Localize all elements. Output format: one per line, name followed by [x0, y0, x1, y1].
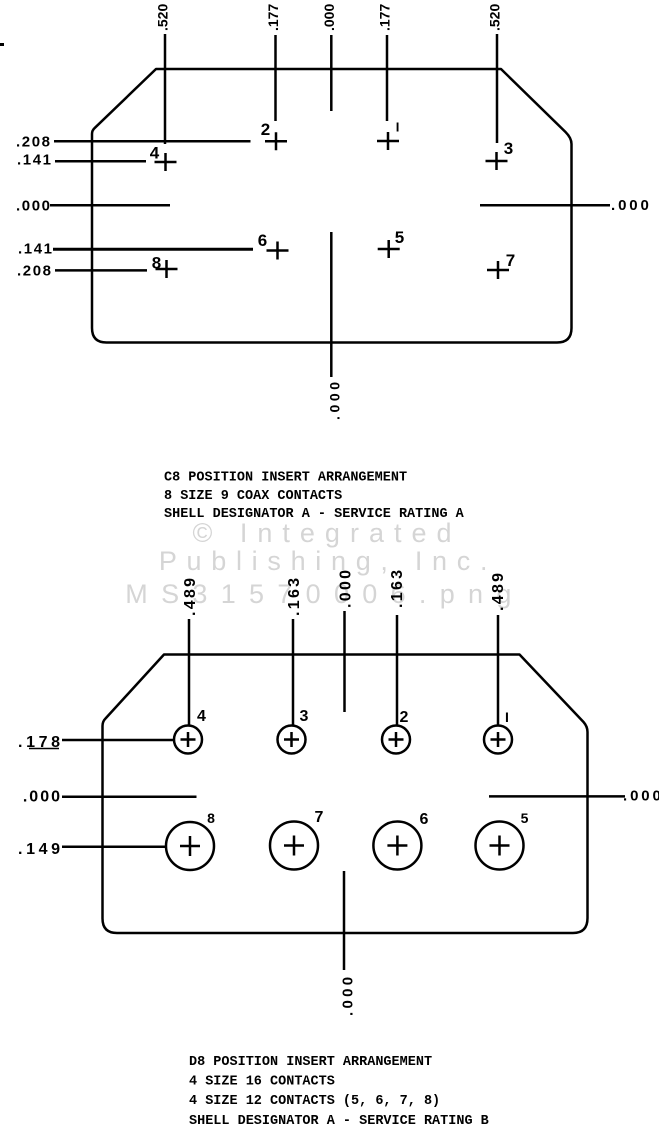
svg-text:Publishing, Inc.: Publishing, Inc.: [159, 546, 497, 576]
dimension centerline .000 (C8): [330, 35, 333, 377]
svg-text:.520: .520: [487, 4, 503, 31]
svg-text:D8 POSITION INSERT ARRANGEMENT: D8 POSITION INSERT ARRANGEMENT: [189, 1055, 432, 1070]
contact 7 cross (C8): [487, 261, 509, 279]
dimension line .489 left (D8): [188, 619, 191, 726]
svg-text:8: 8: [207, 810, 215, 826]
dimension line .520 right (C8): [496, 34, 499, 143]
dimension line .177 left (C8): [274, 35, 277, 121]
centerline bottom .000 (D8): [343, 871, 346, 970]
contact 8 circle (D8): [166, 822, 214, 870]
svg-text:7: 7: [315, 809, 324, 826]
svg-text:I: I: [396, 120, 400, 135]
svg-text:.000: .000: [16, 198, 52, 215]
contact 1 circle (D8): [484, 726, 512, 754]
svg-text:8 SIZE 9 COAX CONTACTS: 8 SIZE 9 COAX CONTACTS: [164, 489, 342, 504]
contact 8 cross (C8): [156, 260, 178, 278]
svg-text:.000: .000: [321, 4, 337, 31]
contact 3 circle (D8): [278, 726, 306, 754]
contact 1 cross (C8): [377, 132, 399, 150]
svg-text:6: 6: [258, 231, 267, 250]
leader .000 left (D8): [62, 795, 197, 798]
svg-text:.208: .208: [17, 263, 53, 280]
dimension centerline .000 (D8): [343, 611, 346, 712]
svg-text:3: 3: [504, 139, 513, 158]
dimension line .520 left (C8): [164, 34, 167, 144]
contact 3 cross (C8): [486, 152, 508, 170]
dimension line .177 right (C8): [386, 35, 389, 121]
svg-text:SHELL DESIGNATOR A - SERVICE R: SHELL DESIGNATOR A - SERVICE RATING B: [189, 1114, 489, 1128]
edge tick top-left: [0, 43, 4, 46]
svg-text:7: 7: [506, 251, 515, 270]
svg-text:.000: .000: [338, 568, 355, 608]
contact 6 cross (C8): [267, 242, 289, 260]
svg-text:5: 5: [521, 810, 529, 826]
leader .178 (D8): [62, 739, 174, 742]
svg-text:.208: .208: [16, 134, 52, 151]
contact 4 cross (C8): [155, 153, 177, 171]
leader .000 right (C8): [480, 204, 610, 207]
dimension line .489 right (D8): [497, 615, 500, 726]
shell outline C8: [92, 69, 572, 343]
underline of .178: [29, 748, 59, 750]
svg-text:3: 3: [300, 708, 309, 725]
svg-text:.163: .163: [389, 568, 406, 608]
svg-text:.489: .489: [490, 571, 507, 611]
svg-text:I: I: [505, 709, 509, 725]
dimension line .163 left (D8): [292, 619, 295, 726]
svg-text:.489: .489: [182, 576, 199, 616]
svg-text:2: 2: [400, 709, 409, 726]
svg-text:C8 POSITION INSERT ARRANGEMENT: C8 POSITION INSERT ARRANGEMENT: [164, 471, 407, 486]
svg-text:.177: .177: [377, 4, 393, 31]
leader .208 upper (C8): [54, 140, 251, 143]
svg-text:.000: .000: [326, 378, 342, 420]
leader .149 (D8): [62, 845, 166, 848]
svg-text:4: 4: [197, 708, 206, 725]
leader .141 upper (C8): [55, 160, 146, 163]
svg-text:4: 4: [150, 144, 160, 163]
dimension line .163 right (D8): [396, 615, 399, 726]
svg-text:5: 5: [395, 228, 404, 247]
svg-text:6: 6: [420, 811, 429, 828]
svg-text:© Integrated: © Integrated: [193, 518, 462, 548]
leader .000 right (D8): [489, 795, 625, 798]
contact 4 circle (D8): [174, 726, 202, 754]
contact 2 cross (C8): [265, 132, 287, 150]
contact 2 circle (D8): [382, 726, 410, 754]
leader .000 left (C8): [50, 204, 170, 207]
svg-text:.000: .000: [340, 974, 357, 1016]
svg-text:SHELL DESIGNATOR A - SERVICE R: SHELL DESIGNATOR A - SERVICE RATING A: [164, 507, 465, 522]
svg-text:8: 8: [152, 254, 161, 273]
svg-text:.177: .177: [265, 4, 281, 31]
svg-text:.163: .163: [286, 576, 303, 616]
svg-text:.000: .000: [23, 789, 62, 806]
svg-text:.141: .141: [18, 241, 54, 258]
shell outline D8: [103, 655, 588, 934]
svg-text:4 SIZE 12 CONTACTS (5, 6, 7, 8: 4 SIZE 12 CONTACTS (5, 6, 7, 8): [189, 1094, 440, 1109]
svg-text:.000: .000: [611, 197, 652, 214]
contact 7 circle (D8): [270, 822, 318, 870]
svg-text:.141: .141: [17, 152, 53, 169]
contact 6 circle (D8): [373, 822, 421, 870]
leader .208 lower (C8): [55, 269, 147, 272]
svg-text:.149: .149: [18, 841, 64, 858]
svg-text:4 SIZE 16 CONTACTS: 4 SIZE 16 CONTACTS: [189, 1075, 335, 1090]
svg-text:2: 2: [261, 120, 270, 139]
leader .141 lower (C8): [53, 248, 253, 251]
contact 5 cross (C8): [378, 240, 400, 258]
svg-text:.000: .000: [623, 788, 659, 805]
contact 5 circle (D8): [476, 822, 524, 870]
svg-text:.520: .520: [155, 4, 171, 31]
